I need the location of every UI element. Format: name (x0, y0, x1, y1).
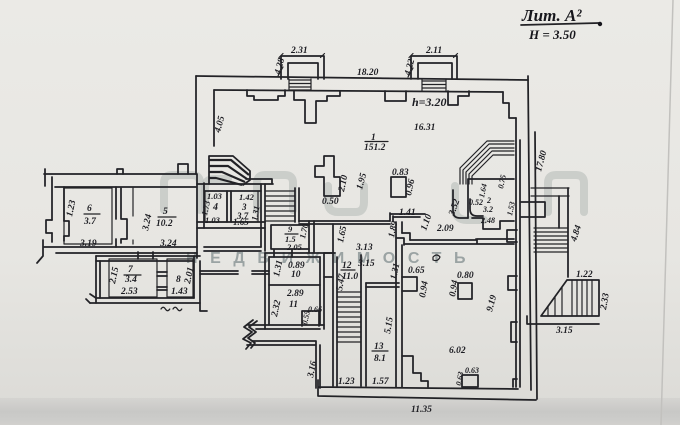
svg-text:1.41: 1.41 (399, 208, 416, 218)
closet 0.55 box (302, 311, 319, 326)
room3 box (231, 191, 258, 222)
title Lit A2 (521, 6, 602, 42)
svg-text:3.15: 3.15 (357, 259, 375, 269)
room9 box (271, 225, 309, 249)
room13 top wall (366, 283, 399, 287)
right wall inner lower (516, 118, 520, 387)
svg-text:1.03: 1.03 (207, 191, 223, 201)
watermark glyph 6 (548, 175, 584, 212)
block bottom wall (90, 298, 207, 311)
svg-text:3.4: 3.4 (124, 275, 137, 285)
column 0.63 (462, 375, 478, 387)
svg-text:6: 6 (87, 204, 92, 214)
svg-text:8.1: 8.1 (374, 354, 386, 364)
tick above wing wall (117, 169, 123, 174)
room5 box left edge (132, 188, 134, 244)
room 6.02 stepped NW wall (396, 233, 410, 245)
stairwell mid wall (361, 255, 366, 386)
sw outer wall (247, 341, 320, 388)
svg-text:18.20: 18.20 (357, 68, 379, 78)
ext flight connector lines (531, 188, 569, 196)
bottom scan shadow band (0, 398, 680, 425)
svg-text:Н = 3.50: Н = 3.50 (528, 27, 576, 42)
room9 right wall (309, 221, 314, 253)
rooms10/11 left wall (265, 253, 269, 329)
stair wedge top-left (209, 160, 249, 185)
dim ticks bay2 (408, 54, 458, 78)
main outline: top wall outer (196, 76, 528, 80)
bay 2 outer (411, 56, 457, 79)
bay 2 inner (418, 63, 452, 79)
inner wall corner notch right (503, 92, 516, 118)
svg-text:8: 8 (176, 275, 181, 285)
watermark glyph 3 (257, 175, 293, 210)
wall rooms 6/5 (116, 187, 127, 247)
svg-text:2.05: 2.05 (286, 242, 303, 252)
svg-text:2.11: 2.11 (425, 46, 442, 56)
ext landing box (521, 202, 545, 217)
svg-text:3.7: 3.7 (83, 217, 97, 227)
svg-text:11: 11 (289, 300, 298, 310)
bay 1 inner (288, 63, 318, 79)
room7 box (109, 259, 157, 297)
wall rooms 4/3 (227, 191, 231, 222)
bay 1 threshold hatch (289, 79, 311, 90)
svg-text:11.0: 11.0 (342, 272, 358, 282)
rooms10/11 right wall (320, 253, 324, 329)
svg-text:2.53: 2.53 (120, 287, 138, 297)
svg-text:6.02: 6.02 (449, 346, 466, 356)
room2 left rounded wall (453, 190, 468, 218)
scribble (433, 255, 440, 261)
rooms 4/3 right wall (261, 184, 265, 251)
svg-text:1.03: 1.03 (205, 215, 221, 225)
wing left wall (52, 177, 64, 242)
pilaster 0.65 (402, 277, 417, 291)
block bottom-left tick (86, 294, 96, 303)
column cross (315, 156, 340, 196)
svg-text:10.2: 10.2 (156, 219, 173, 229)
svg-text:11.35: 11.35 (411, 405, 432, 415)
ext stair right edge (559, 188, 568, 277)
svg-text:3.24: 3.24 (159, 239, 177, 249)
right wall outer (528, 76, 531, 390)
left wing top wall (44, 174, 196, 187)
svg-text:2.31: 2.31 (290, 46, 308, 56)
door jambs below room9 (274, 250, 292, 257)
svg-text:1.22: 1.22 (576, 270, 593, 280)
watermark glyph 2 (205, 179, 228, 210)
rooms 4/3 bottom wall (197, 222, 265, 228)
corridor wall rooms8-10 (200, 271, 269, 274)
stair link walls (324, 253, 333, 277)
door squiggles bottom wall (161, 307, 182, 311)
svg-text:2: 2 (486, 196, 491, 205)
svg-text:5: 5 (163, 207, 168, 217)
svg-text:10: 10 (291, 270, 301, 280)
watermark row1 glyphs (164, 175, 584, 220)
inner wall notch a (247, 90, 285, 100)
svg-text:3.15: 3.15 (555, 326, 573, 336)
block left wall (96, 256, 100, 303)
steps inside 6.02 (402, 356, 428, 387)
watermark glyph 5 (455, 186, 484, 220)
wall rooms10/11 (269, 284, 320, 286)
wing top wall end cap (44, 169, 46, 186)
rooms 7/8 block top wall (96, 256, 200, 261)
room6 box (64, 188, 112, 244)
svg-text:h=3.20: h=3.20 (412, 95, 447, 109)
inner wall notch d (448, 91, 469, 105)
svg-text:0.52: 0.52 (469, 198, 483, 207)
svg-text:0.50: 0.50 (322, 197, 339, 207)
left wall inner (213, 90, 215, 146)
hatch stair right of room3 (266, 191, 295, 221)
svg-text:1.65: 1.65 (233, 217, 249, 227)
ext lower stair trapezoid (541, 280, 599, 316)
left wall outer (195, 76, 197, 174)
watermark glyph 1 (164, 175, 200, 210)
right wall pilasters (507, 230, 517, 242)
room8 box (167, 259, 193, 297)
svg-text:2.09: 2.09 (436, 224, 454, 234)
bay 1 outer (281, 56, 324, 79)
wedge frame (209, 156, 250, 185)
svg-text:0.83: 0.83 (392, 168, 409, 178)
svg-text:0.65: 0.65 (408, 266, 425, 276)
svg-text:1.23: 1.23 (338, 377, 355, 387)
rooms10/11 top wall (265, 253, 335, 257)
rooms 4/3 top wall (197, 179, 273, 191)
trapezoid treads (548, 280, 592, 316)
room11 bottom wall (248, 325, 324, 329)
corridor wall step up right (390, 213, 425, 221)
dim ticks bay1 (278, 54, 325, 77)
svg-text:3.13: 3.13 (355, 243, 373, 253)
svg-text:1.43: 1.43 (171, 287, 188, 297)
corridor wall below rooms 4/3 (204, 247, 261, 251)
right wall outer second (535, 132, 537, 399)
watermark glyph 4 (328, 186, 364, 212)
rooms 4/3 block left wall (197, 174, 204, 258)
door jambs above room7 (138, 252, 153, 259)
svg-text:Лит. А²: Лит. А² (521, 6, 582, 25)
top wall inner (214, 90, 503, 92)
stairwell left wall (333, 224, 337, 386)
inner wall notch b (294, 91, 340, 123)
chimney box on wing wall (178, 164, 188, 174)
column 0.83 box (391, 177, 406, 197)
svg-text:0.80: 0.80 (457, 271, 474, 281)
wing left pilaster (46, 220, 69, 236)
stair treads (337, 292, 361, 342)
hatch walls (295, 188, 299, 222)
svg-text:16.31: 16.31 (414, 123, 435, 133)
bottom wall (318, 380, 536, 400)
room12/13 right wall (396, 222, 402, 387)
svg-text:3.19: 3.19 (79, 239, 97, 249)
room2 box (468, 179, 514, 229)
svg-text:1.57: 1.57 (372, 377, 390, 387)
column 0.80 (458, 283, 472, 299)
room 6.02 top wall (404, 239, 514, 244)
corridor top wall center (299, 221, 390, 224)
door crossbars rooms 7/8 (157, 272, 167, 290)
lower stair base (527, 316, 599, 324)
bay 2 threshold hatch (422, 79, 446, 91)
room2 winding stairs (460, 141, 514, 184)
svg-text:2.48: 2.48 (480, 216, 495, 225)
svg-text:0.63: 0.63 (465, 366, 479, 375)
inner wall notch c (385, 91, 406, 101)
wing bottom end tick (37, 240, 43, 263)
svg-text:1.42: 1.42 (239, 192, 255, 202)
wing bottom wall (44, 247, 197, 253)
sw break squiggle (243, 320, 257, 349)
svg-text:151.2: 151.2 (364, 143, 386, 153)
room4 box (205, 191, 227, 222)
block right wall (194, 256, 200, 303)
svg-text:4: 4 (212, 202, 218, 213)
ext upper treads (534, 228, 568, 252)
svg-text:3.2: 3.2 (482, 205, 493, 214)
title underline arrow dot (598, 22, 602, 26)
svg-text:2.89: 2.89 (286, 289, 304, 299)
scan edge line right (661, 0, 673, 425)
